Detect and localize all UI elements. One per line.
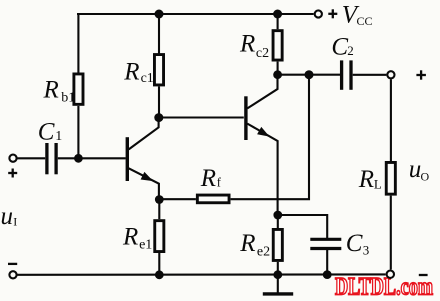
transistor T1 emitter arrow — [141, 172, 154, 181]
resistor Rb1 — [74, 74, 83, 104]
minus output — [419, 274, 428, 276]
wire T2 base — [159, 116, 244, 118]
svg-text:R: R — [122, 223, 138, 250]
svg-text:c1: c1 — [141, 71, 154, 86]
svg-text:R: R — [239, 31, 255, 58]
terminal Vcc — [315, 10, 322, 17]
wire Rc2 bottom lead — [277, 62, 279, 75]
node C3 bottom rail — [323, 270, 332, 279]
wire C2 to output terminal — [353, 74, 387, 76]
svg-text:c2: c2 — [256, 46, 269, 61]
svg-text:e2: e2 — [257, 245, 270, 260]
wire input to C1 — [17, 157, 46, 159]
svg-text:C: C — [346, 230, 363, 257]
svg-text:u: u — [409, 156, 422, 183]
transistor T1 emitter — [129, 168, 159, 199]
wire Rb1 top lead — [77, 13, 79, 74]
wire Rf left lead — [159, 198, 196, 200]
node T1 emitter Rf Re1 — [155, 195, 164, 204]
wire Rc2 top lead — [277, 14, 279, 29]
capacitor C2 — [340, 60, 343, 89]
resistor RL — [386, 162, 395, 194]
node top rail Rc1 — [155, 10, 164, 19]
transistor T1 bar — [126, 137, 129, 181]
svg-text:I: I — [13, 215, 17, 229]
wire C3 top lead — [278, 215, 327, 238]
wire bottom rail — [17, 273, 385, 275]
wire C3 bottom lead — [326, 250, 328, 275]
svg-text:C: C — [38, 119, 55, 146]
capacitor C3 — [310, 238, 341, 241]
svg-text:1: 1 — [55, 129, 62, 144]
node C1 Rb1 base — [74, 154, 83, 163]
svg-text:f: f — [217, 176, 222, 190]
transistor T2 collector — [247, 75, 277, 109]
svg-text:b1: b1 — [61, 91, 75, 106]
svg-text:R: R — [43, 77, 59, 104]
svg-text:C: C — [331, 34, 348, 61]
wire Rc1 top lead — [158, 14, 160, 55]
terminal output bottom — [387, 271, 394, 278]
ground — [277, 275, 279, 293]
svg-text:O: O — [421, 170, 430, 184]
resistor Rc1 — [154, 55, 163, 85]
wire Rc1 bottom lead — [158, 87, 160, 118]
transistor T1 collector — [129, 118, 159, 150]
svg-text:3: 3 — [363, 242, 370, 257]
terminal input bottom — [9, 271, 16, 278]
transistor T2 emitter arrow — [257, 127, 269, 137]
node top rail Rc2 — [273, 10, 282, 19]
wire C1 to base — [58, 157, 126, 159]
svg-text:DLTDL.com: DLTDL.com — [335, 274, 433, 301]
plus Vcc — [328, 13, 337, 15]
resistor Rf — [197, 195, 229, 203]
svg-text:R: R — [239, 230, 255, 257]
wire Re2 top lead — [277, 215, 279, 228]
resistor Re1 — [155, 221, 164, 252]
wire top rail — [77, 13, 314, 15]
wire Re2 bottom lead — [277, 262, 279, 275]
plus input — [8, 172, 17, 174]
transistor T2 bar — [244, 96, 247, 140]
wire Re1 top lead — [158, 200, 160, 220]
node T2 emitter Re2 C3 — [273, 211, 282, 220]
minus input — [8, 263, 17, 265]
svg-text:R: R — [358, 166, 374, 193]
terminal input top — [9, 155, 16, 162]
terminal output top — [387, 71, 394, 78]
svg-text:R: R — [200, 165, 216, 192]
capacitor C1 — [45, 143, 48, 174]
wire RL bottom lead — [390, 196, 392, 270]
svg-text:L: L — [374, 177, 382, 192]
svg-text:CC: CC — [357, 14, 373, 28]
node Rc2 T2 collector — [273, 70, 282, 79]
wire collector node to C2 — [278, 74, 340, 76]
svg-text:2: 2 — [347, 43, 354, 58]
node T1 collector Rc1 — [154, 113, 163, 122]
svg-text:u: u — [1, 203, 14, 230]
transistor T2 emitter — [247, 124, 277, 215]
svg-text:e1: e1 — [139, 237, 152, 252]
node feedback tap — [305, 70, 314, 79]
svg-text:R: R — [123, 58, 139, 85]
wire RL top lead — [390, 79, 392, 161]
wire Rb1 bottom lead — [77, 106, 79, 158]
wire Re1 bottom lead — [158, 253, 160, 275]
plus output — [416, 74, 426, 76]
node Re1 bottom rail — [155, 270, 164, 279]
node Re2 bottom rail ground — [273, 270, 282, 279]
wire feedback vertical — [231, 75, 309, 200]
resistor Re2 — [273, 229, 282, 260]
resistor Rc2 — [273, 31, 282, 60]
